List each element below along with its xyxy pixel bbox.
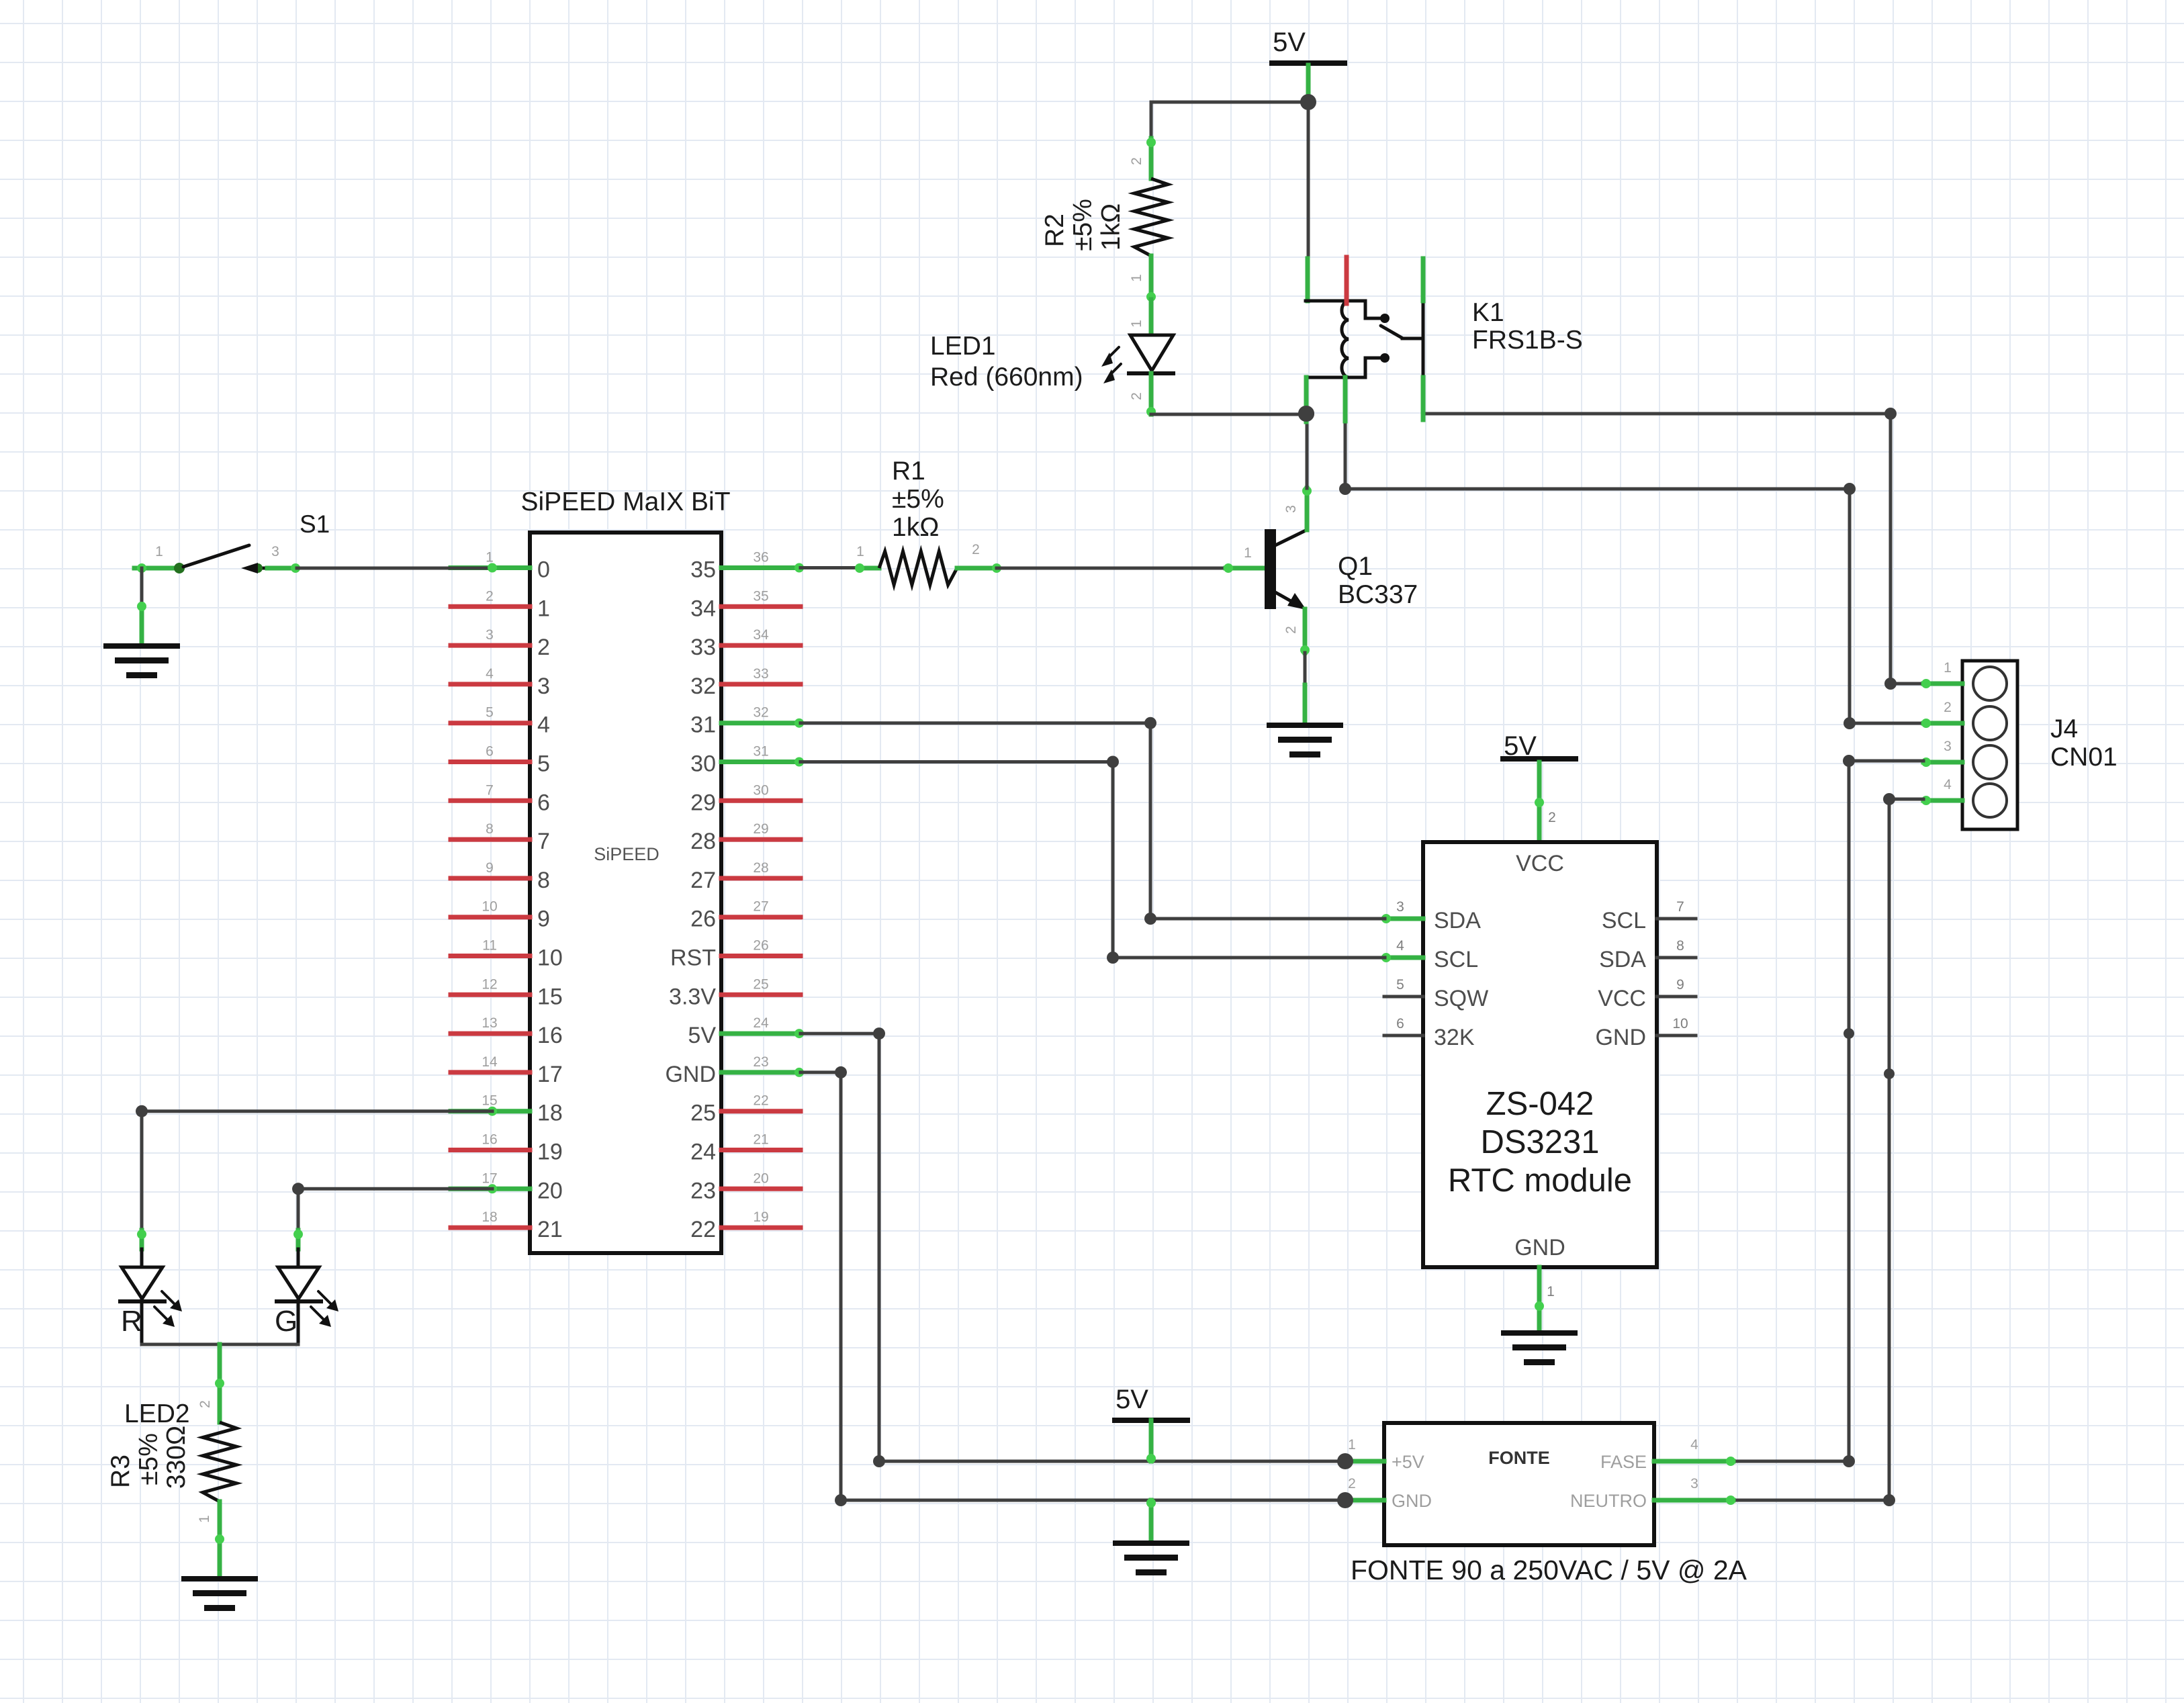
SiPEED connected pin dots xyxy=(488,563,804,1194)
svg-text:RTC module: RTC module xyxy=(1448,1162,1632,1199)
junction node LED1/Q1/K1 xyxy=(1298,406,1314,422)
power 5V (FONTE) xyxy=(1112,1385,1190,1463)
svg-text:LED1: LED1 xyxy=(930,332,996,361)
RTC right pin stubs xyxy=(1657,919,1696,1035)
svg-text:GND: GND xyxy=(1514,1235,1565,1260)
svg-text:3: 3 xyxy=(1283,505,1299,513)
svg-text:15: 15 xyxy=(537,984,563,1009)
junction node 5V rail xyxy=(1300,94,1316,110)
svg-text:18: 18 xyxy=(537,1101,563,1126)
svg-text:1: 1 xyxy=(155,544,163,559)
svg-text:3: 3 xyxy=(1944,739,1952,754)
SiPEED left pin numbers 1-18 xyxy=(482,550,498,1226)
svg-text:2: 2 xyxy=(1129,392,1144,400)
svg-text:36: 36 xyxy=(753,550,768,565)
svg-text:6: 6 xyxy=(486,744,494,760)
svg-text:2: 2 xyxy=(197,1400,213,1408)
svg-text:4: 4 xyxy=(1396,938,1404,954)
label R2 ±5% 1kΩ xyxy=(1040,199,1126,251)
svg-text:FONTE 90 a 250VAC / 5V @ 2A: FONTE 90 a 250VAC / 5V @ 2A xyxy=(1351,1555,1747,1585)
svg-text:G: G xyxy=(275,1305,298,1338)
svg-text:LED2: LED2 xyxy=(124,1399,190,1428)
svg-text:8: 8 xyxy=(537,868,550,893)
svg-text:R1: R1 xyxy=(892,457,925,486)
wire SiPEED pin 30 to RTC SCL xyxy=(801,756,1385,964)
IC U2 ZS-042 DS3231 RTC module box xyxy=(1423,842,1657,1267)
svg-text:J4: J4 xyxy=(2050,715,2078,743)
wire LED2 to R3 xyxy=(215,1344,224,1422)
svg-text:3.3V: 3.3V xyxy=(669,984,716,1009)
svg-text:32K: 32K xyxy=(1434,1025,1475,1050)
svg-text:1kΩ: 1kΩ xyxy=(892,513,939,542)
svg-text:2: 2 xyxy=(972,542,980,557)
svg-text:15: 15 xyxy=(482,1093,497,1109)
ground (FONTE) xyxy=(1113,1540,1189,1546)
svg-text:3: 3 xyxy=(1396,899,1404,915)
svg-text:31: 31 xyxy=(753,744,768,760)
IC U1 SiPEED MaIX BiT box xyxy=(530,533,721,1253)
svg-text:20: 20 xyxy=(537,1178,563,1203)
svg-text:7: 7 xyxy=(537,829,550,854)
wire R1 to Q1 base xyxy=(997,567,1228,570)
SiPEED right pin labels xyxy=(665,557,716,1243)
R3 pin numbers xyxy=(197,1400,213,1523)
wire SiPEED pin 18 to LED2-R xyxy=(136,1105,492,1249)
resistor R2 xyxy=(1134,138,1168,302)
RTC left pin stubs SDA/SCL/SQW/32K xyxy=(1381,914,1423,1035)
wire Q1 emitter to ground xyxy=(1304,653,1307,723)
svg-text:1kΩ: 1kΩ xyxy=(1097,203,1126,250)
svg-text:5: 5 xyxy=(537,751,550,777)
SiPEED right pin stubs xyxy=(721,568,801,1228)
svg-text:8: 8 xyxy=(486,821,494,837)
svg-text:33: 33 xyxy=(753,666,768,682)
svg-text:±5%: ±5% xyxy=(892,485,944,514)
FONTE pin numbers xyxy=(1348,1437,1698,1491)
wire SiPEED GND pin to FONTE GND xyxy=(801,1066,1345,1506)
label Q1 BC337 xyxy=(1338,552,1418,609)
svg-text:1: 1 xyxy=(1348,1437,1356,1453)
svg-text:1: 1 xyxy=(1244,545,1252,561)
svg-text:23: 23 xyxy=(690,1178,716,1203)
svg-text:11: 11 xyxy=(482,938,497,954)
svg-text:±5%: ±5% xyxy=(1068,199,1097,251)
RTC right pin labels xyxy=(1595,908,1646,1050)
SiPEED left pin stubs xyxy=(451,568,530,1228)
svg-text:3: 3 xyxy=(486,627,494,643)
svg-text:24: 24 xyxy=(753,1015,769,1031)
label LED1 Red (660nm) xyxy=(930,332,1083,392)
svg-text:8: 8 xyxy=(1676,938,1684,954)
svg-text:R: R xyxy=(121,1305,142,1338)
svg-text:NEUTRO: NEUTRO xyxy=(1570,1491,1647,1511)
svg-text:7: 7 xyxy=(1676,899,1684,915)
FONTE pin stubs xyxy=(1345,1457,1735,1505)
svg-text:GND: GND xyxy=(1595,1025,1646,1050)
svg-text:BC337: BC337 xyxy=(1338,580,1418,609)
svg-text:1: 1 xyxy=(856,544,864,559)
svg-text:SiPEED MaIX BiT: SiPEED MaIX BiT xyxy=(520,488,730,516)
svg-text:16: 16 xyxy=(482,1132,497,1148)
svg-text:16: 16 xyxy=(537,1023,563,1048)
svg-text:35: 35 xyxy=(690,557,716,583)
svg-text:19: 19 xyxy=(537,1140,563,1165)
svg-text:FONTE: FONTE xyxy=(1488,1448,1550,1468)
svg-text:19: 19 xyxy=(753,1209,768,1225)
svg-text:4: 4 xyxy=(537,712,550,738)
wire 5V to RTC VCC xyxy=(1535,762,1544,842)
label ZS-042 DS3231 RTC module xyxy=(1448,1086,1632,1199)
svg-text:VCC: VCC xyxy=(1598,986,1646,1011)
wire RTC GND to ground xyxy=(1535,1267,1544,1330)
svg-text:4: 4 xyxy=(1690,1437,1698,1453)
svg-text:4: 4 xyxy=(486,666,494,682)
wire SiPEED pin 35 to R1 xyxy=(801,566,860,569)
RTC left pin labels xyxy=(1434,908,1488,1050)
svg-text:SiPEED: SiPEED xyxy=(594,844,659,864)
ground (RTC) xyxy=(1501,1330,1578,1336)
svg-text:21: 21 xyxy=(537,1217,563,1242)
svg-text:34: 34 xyxy=(690,596,716,621)
wire S1 to pin0 overlay xyxy=(297,567,492,570)
RTC top/bottom pin labels xyxy=(1514,851,1565,1260)
SiPEED left pin labels xyxy=(537,557,563,1243)
svg-text:27: 27 xyxy=(690,868,716,893)
wire Q1 collector to node xyxy=(1306,414,1309,488)
wire 5V to R2/K1 xyxy=(1151,102,1308,259)
svg-text:1: 1 xyxy=(486,550,494,565)
svg-text:5: 5 xyxy=(486,705,494,721)
svg-text:1: 1 xyxy=(1547,1284,1555,1299)
svg-text:±5%: ±5% xyxy=(134,1433,163,1485)
svg-text:Red (660nm): Red (660nm) xyxy=(930,363,1083,392)
svg-text:1: 1 xyxy=(1129,320,1144,328)
relay K1 FRS1B-S xyxy=(1306,257,1423,414)
svg-text:5V: 5V xyxy=(1504,731,1537,761)
svg-text:5: 5 xyxy=(1396,977,1404,993)
R1 pin numbers xyxy=(856,542,980,559)
svg-text:4: 4 xyxy=(1944,777,1952,792)
wire K1 NO contact to J4 pin2 xyxy=(1339,414,1923,729)
switch S1 xyxy=(134,545,300,573)
svg-text:K1: K1 xyxy=(1472,298,1504,327)
svg-text:24: 24 xyxy=(690,1140,716,1165)
svg-text:12: 12 xyxy=(482,976,497,992)
svg-text:0: 0 xyxy=(537,557,550,583)
svg-text:6: 6 xyxy=(1396,1016,1404,1031)
label K1 FRS1B-S xyxy=(1472,298,1583,355)
svg-text:3: 3 xyxy=(271,544,279,559)
svg-text:33: 33 xyxy=(690,635,716,660)
power 5V (RTC) xyxy=(1500,731,1578,762)
power 5V (top rail) xyxy=(1269,28,1347,102)
svg-text:30: 30 xyxy=(690,751,716,777)
svg-text:2: 2 xyxy=(1348,1476,1356,1491)
svg-text:10: 10 xyxy=(482,899,497,915)
resistor R3 xyxy=(203,1422,236,1576)
svg-text:18: 18 xyxy=(482,1209,497,1225)
SiPEED right pin numbers 36-19 xyxy=(753,550,769,1226)
label J4 CN01 xyxy=(2050,715,2118,772)
svg-text:27: 27 xyxy=(753,899,768,915)
junction node LED1/Q1/K1 dot overlay xyxy=(1298,406,1314,422)
svg-text:330Ω: 330Ω xyxy=(162,1426,191,1489)
Q1 pin numbers xyxy=(1244,505,1299,634)
svg-text:1: 1 xyxy=(1129,274,1144,282)
wire SiPEED pin 31 to RTC SDA xyxy=(801,717,1385,925)
LED LED2-R xyxy=(120,1249,182,1344)
label R3 ±5% 330Ω xyxy=(106,1426,191,1489)
svg-text:S1: S1 xyxy=(300,510,330,538)
svg-text:3: 3 xyxy=(1690,1476,1698,1491)
power supply FONTE box xyxy=(1384,1423,1654,1545)
svg-text:17: 17 xyxy=(482,1170,497,1186)
svg-text:35: 35 xyxy=(753,588,768,604)
wire S1 pin3 to SiPEED pin 0 xyxy=(297,567,492,570)
svg-text:29: 29 xyxy=(690,790,716,815)
svg-text:FASE: FASE xyxy=(1600,1452,1647,1472)
svg-text:28: 28 xyxy=(753,860,768,876)
svg-text:VCC: VCC xyxy=(1516,851,1564,876)
svg-text:5V: 5V xyxy=(1273,28,1306,57)
svg-text:CN01: CN01 xyxy=(2050,743,2118,772)
svg-text:34: 34 xyxy=(753,627,769,643)
junction node FONTE GND xyxy=(1337,1492,1353,1508)
svg-text:SCL: SCL xyxy=(1602,908,1646,933)
svg-text:Q1: Q1 xyxy=(1338,552,1373,581)
svg-text:32: 32 xyxy=(690,674,716,699)
wire LED1 to node xyxy=(1151,413,1306,416)
wire J4 pin4 to FONTE NEUTRO xyxy=(1733,793,1923,1506)
svg-text:ZS-042: ZS-042 xyxy=(1486,1086,1594,1122)
svg-text:SQW: SQW xyxy=(1434,986,1488,1011)
LED1 pin numbers xyxy=(1129,320,1144,400)
svg-text:22: 22 xyxy=(690,1217,716,1242)
svg-text:17: 17 xyxy=(537,1062,563,1087)
svg-text:32: 32 xyxy=(753,705,768,721)
svg-text:9: 9 xyxy=(537,907,550,932)
svg-text:31: 31 xyxy=(690,712,716,738)
ground (S1) xyxy=(103,643,180,678)
svg-text:25: 25 xyxy=(690,1101,716,1126)
svg-text:3: 3 xyxy=(537,674,550,699)
svg-text:26: 26 xyxy=(753,938,768,954)
S1 pin numbers xyxy=(155,544,279,559)
svg-text:SCL: SCL xyxy=(1434,947,1478,972)
svg-text:DS3231: DS3231 xyxy=(1480,1124,1599,1160)
connector J4 CN01 xyxy=(1921,661,2017,829)
RTC left pin numbers 3-6 xyxy=(1396,899,1404,1031)
svg-text:28: 28 xyxy=(690,829,716,854)
svg-text:1: 1 xyxy=(537,596,550,621)
junction node FONTE +5V xyxy=(1337,1453,1353,1469)
wire SiPEED 5V pin to FONTE +5V xyxy=(801,1027,1345,1467)
svg-text:R3: R3 xyxy=(106,1455,135,1488)
svg-text:22: 22 xyxy=(753,1093,768,1109)
LED LED1 xyxy=(1101,300,1173,416)
svg-text:SDA: SDA xyxy=(1599,947,1646,972)
ground (R3) xyxy=(181,1576,258,1581)
svg-text:25: 25 xyxy=(753,976,768,992)
wire FONTE GND symbol stub xyxy=(1146,1498,1156,1540)
transistor Q1 BC337 xyxy=(1224,486,1312,655)
svg-text:2: 2 xyxy=(1944,700,1952,715)
wire S1 pin1 to ground xyxy=(137,568,146,643)
svg-text:23: 23 xyxy=(753,1054,768,1070)
wire J4 pin3 to FONTE FASE xyxy=(1733,755,1923,1467)
svg-text:30: 30 xyxy=(753,782,768,798)
svg-text:7: 7 xyxy=(486,782,494,798)
svg-text:6: 6 xyxy=(537,790,550,815)
K1 bottom pin overlays xyxy=(1306,402,1423,422)
svg-text:20: 20 xyxy=(753,1170,768,1186)
svg-text:10: 10 xyxy=(537,946,563,971)
svg-text:2: 2 xyxy=(537,635,550,660)
svg-text:2: 2 xyxy=(486,588,494,604)
svg-text:5V: 5V xyxy=(1116,1385,1148,1414)
LED LED2-G xyxy=(277,1249,338,1344)
svg-text:21: 21 xyxy=(753,1132,768,1148)
wire LED2 cathodes join xyxy=(142,1343,298,1346)
svg-text:29: 29 xyxy=(753,821,768,837)
svg-text:+5V: +5V xyxy=(1392,1452,1424,1472)
RTC right pin numbers 7-10 xyxy=(1672,899,1688,1031)
R2 pin numbers xyxy=(1129,157,1144,282)
svg-text:2: 2 xyxy=(1283,626,1299,634)
label R1 ±5% 1kΩ xyxy=(892,457,944,542)
wire SiPEED pin 20 to LED2-G xyxy=(292,1183,492,1249)
svg-text:GND: GND xyxy=(665,1062,716,1087)
svg-text:SDA: SDA xyxy=(1434,908,1481,933)
svg-text:9: 9 xyxy=(486,860,494,876)
svg-text:9: 9 xyxy=(1676,977,1684,993)
svg-text:26: 26 xyxy=(690,907,716,932)
wire K1 common to J4 pin1 xyxy=(1423,408,1923,690)
svg-text:R2: R2 xyxy=(1040,214,1069,247)
svg-text:2: 2 xyxy=(1129,157,1144,165)
J4 pin numbers xyxy=(1944,660,1952,792)
svg-text:GND: GND xyxy=(1392,1491,1432,1511)
svg-text:1: 1 xyxy=(1944,660,1952,676)
resistor R1 xyxy=(855,551,1001,585)
FONTE pin labels xyxy=(1392,1452,1647,1511)
svg-text:10: 10 xyxy=(1672,1016,1688,1031)
svg-text:2: 2 xyxy=(1548,810,1556,825)
svg-text:1: 1 xyxy=(197,1515,212,1523)
svg-text:FRS1B-S: FRS1B-S xyxy=(1472,326,1583,355)
svg-text:RST: RST xyxy=(670,946,716,971)
svg-text:14: 14 xyxy=(482,1054,498,1070)
ground (Q1) xyxy=(1267,685,1343,757)
svg-text:13: 13 xyxy=(482,1015,497,1031)
svg-text:5V: 5V xyxy=(688,1023,716,1048)
